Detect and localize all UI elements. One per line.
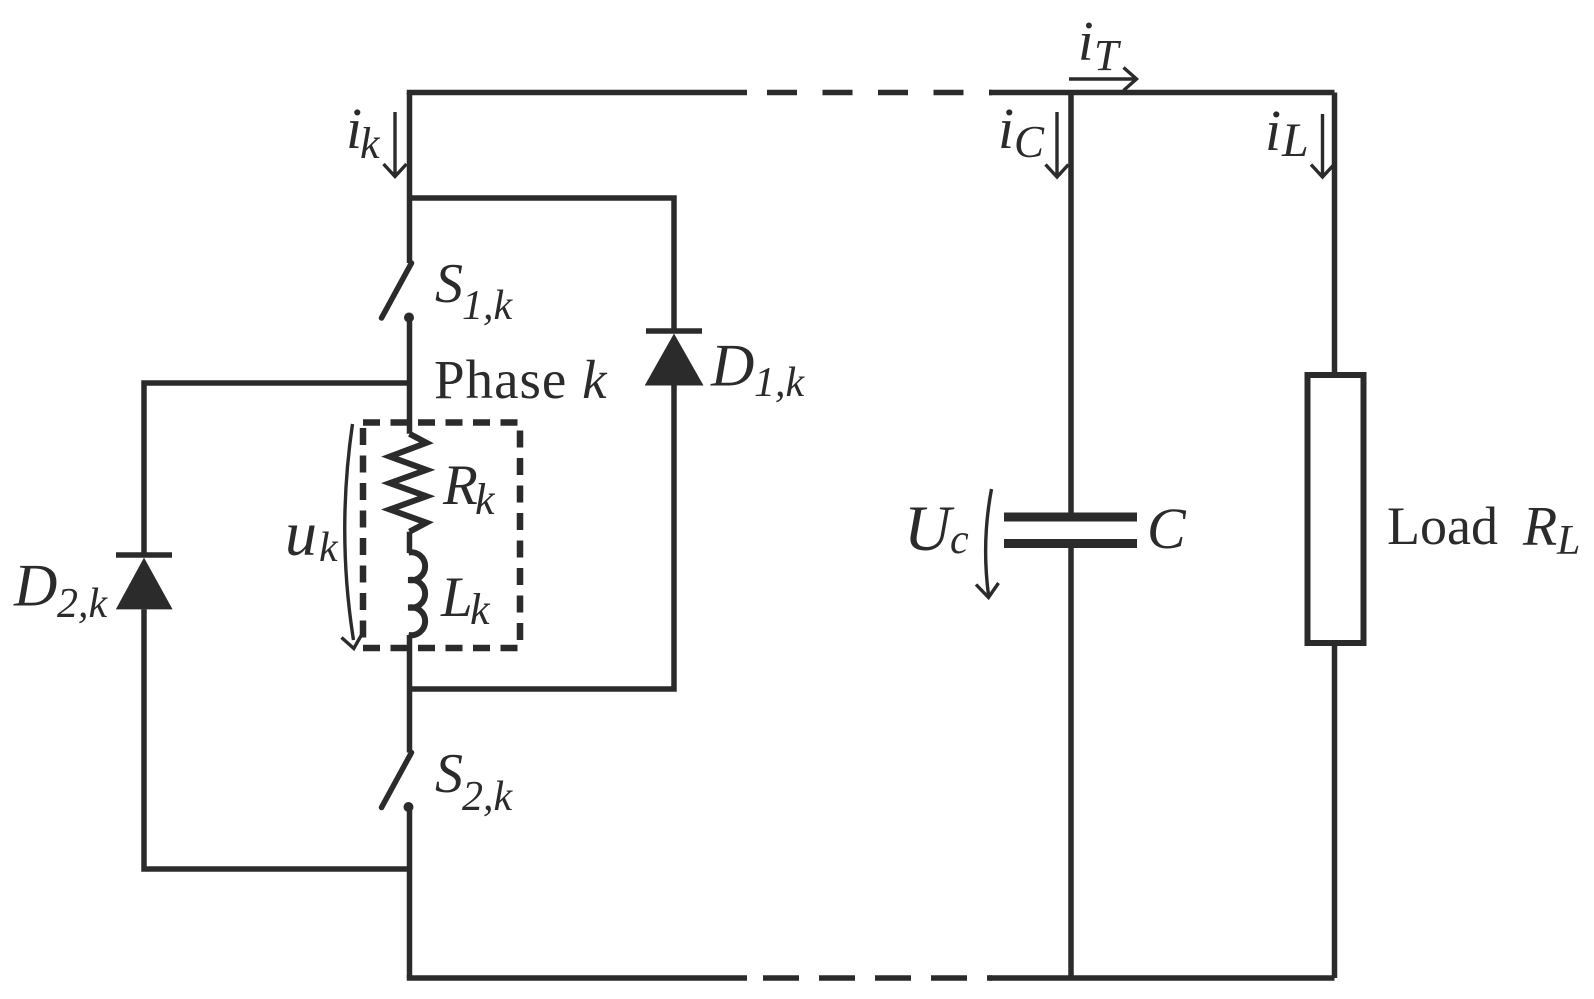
svg-text:k: k bbox=[319, 525, 339, 571]
svg-text:L: L bbox=[440, 566, 473, 629]
wire capacitor leg upper bbox=[1068, 93, 1074, 514]
svg-text:L: L bbox=[1556, 518, 1580, 564]
wire bottom bus dashed middle bbox=[763, 975, 992, 981]
svg-text:i: i bbox=[1265, 98, 1281, 163]
arrow iL bbox=[1311, 114, 1334, 177]
wire capacitor leg lower bbox=[1068, 548, 1074, 979]
svg-text:Load: Load bbox=[1387, 496, 1498, 556]
wire bottom bus solid right bbox=[989, 975, 1335, 981]
diode D1k cathode bar bbox=[646, 328, 702, 334]
svg-text:1,k: 1,k bbox=[462, 283, 514, 329]
arrow uk arc bbox=[342, 424, 363, 649]
diode D1k triangle bbox=[645, 334, 704, 386]
wire load leg lower bbox=[1332, 643, 1338, 978]
svg-text:k: k bbox=[360, 119, 381, 168]
arrow iT bbox=[1069, 68, 1137, 91]
arrow Uc arc bbox=[976, 489, 999, 598]
svg-text:R: R bbox=[442, 454, 478, 517]
wire left branch top bbox=[144, 383, 410, 553]
svg-text:i: i bbox=[998, 96, 1014, 161]
svg-text:u: u bbox=[285, 498, 317, 569]
wire phase leg between S1k and Rk bbox=[407, 318, 413, 434]
diode D2k triangle bbox=[116, 558, 173, 610]
svg-text:k: k bbox=[470, 585, 491, 634]
svg-text:T: T bbox=[1094, 31, 1122, 80]
inductor Lk coil bbox=[409, 552, 426, 635]
wire between Rk and Lk bbox=[407, 532, 413, 553]
wire phase leg lower bbox=[407, 807, 413, 978]
svg-text:C: C bbox=[1014, 117, 1045, 167]
capacitor C top plate bbox=[1004, 513, 1137, 522]
svg-text:S: S bbox=[435, 253, 463, 315]
wire phase leg upper bbox=[407, 93, 413, 264]
switch S2k blade bbox=[382, 753, 412, 808]
resistor Rk zigzag bbox=[390, 434, 427, 532]
svg-text:D: D bbox=[13, 553, 57, 619]
svg-text:k: k bbox=[475, 475, 496, 524]
wire load leg upper bbox=[1332, 93, 1338, 376]
svg-text:1,k: 1,k bbox=[754, 360, 806, 406]
wire D1k bottom branch bbox=[410, 386, 675, 690]
capacitor C bottom plate bbox=[1004, 539, 1137, 548]
svg-text:2,k: 2,k bbox=[462, 774, 514, 820]
svg-text:R: R bbox=[1522, 496, 1557, 558]
dashed box phase winding bbox=[363, 423, 520, 649]
switch S2k contact dot bbox=[404, 802, 414, 812]
wire bottom bus solid left bbox=[410, 975, 748, 978]
arrow iC bbox=[1046, 112, 1069, 177]
svg-text:2,k: 2,k bbox=[57, 581, 109, 627]
switch S1k contact dot bbox=[404, 313, 414, 323]
wire top bus solid right bbox=[989, 90, 1335, 96]
wire top bus dashed middle bbox=[767, 90, 992, 96]
svg-text:D: D bbox=[710, 333, 754, 399]
svg-text:C: C bbox=[1147, 496, 1187, 561]
svg-text:i: i bbox=[1078, 11, 1094, 73]
svg-text:Phase k: Phase k bbox=[434, 349, 608, 410]
wire left branch bottom bbox=[144, 609, 410, 869]
wire top bus solid left bbox=[410, 93, 748, 96]
wire phase leg below Lk bbox=[407, 635, 413, 753]
switch S1k blade bbox=[382, 263, 412, 318]
arrow ik bbox=[384, 112, 407, 177]
svg-text:L: L bbox=[1281, 114, 1309, 167]
diode D2k cathode bar bbox=[116, 552, 172, 558]
svg-text:c: c bbox=[950, 517, 969, 563]
svg-text:S: S bbox=[435, 743, 463, 805]
svg-text:U: U bbox=[904, 493, 955, 565]
load resistor RL box bbox=[1308, 375, 1364, 643]
wire D1k top branch bbox=[410, 198, 675, 329]
